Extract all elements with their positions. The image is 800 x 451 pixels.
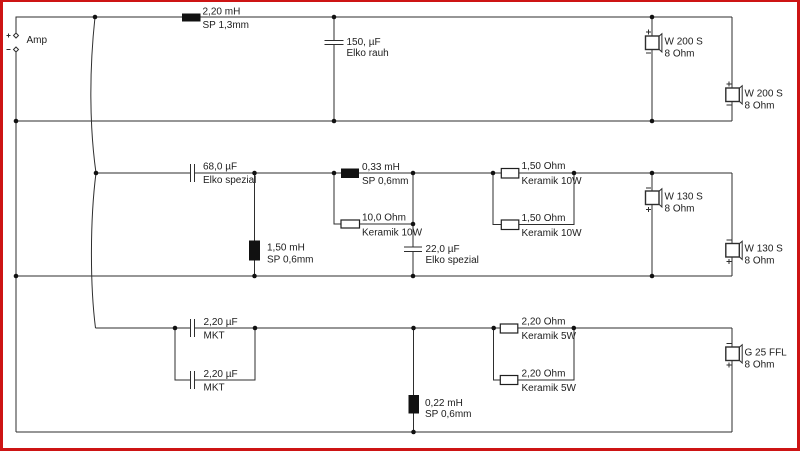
node rail1 / left bus: [14, 119, 19, 124]
node rail1 / C1: [332, 119, 337, 124]
wire woofer return rail (section 1 bottom): [16, 120, 732, 122]
svg-text:W 200 S: W 200 S: [665, 37, 704, 48]
svg-text:1,50 Ohm: 1,50 Ohm: [522, 213, 566, 224]
node rail2 / LS3 column: [650, 274, 655, 279]
speaker LS2 W 200 S 8 Ohm: [726, 82, 783, 112]
wire midrange rail: [96, 172, 190, 174]
inductor L3 1,50 mH SP 0,6mm (shunt): [249, 173, 314, 276]
speaker LS3 W 130 S 8 Ohm (inverted polarity): [646, 188, 704, 215]
resistor R2 1,50 Ohm Keramik 10W (top of pair): [501, 161, 582, 187]
capacitor C5 2,20 µF MKT (bottom of pair): [175, 328, 255, 394]
speaker LS5 G 25 FFL 8 Ohm (inverted polarity): [726, 344, 787, 371]
terminal - (amp negative): [7, 47, 19, 52]
wire right outer column section 2: [731, 173, 733, 244]
speaker LS1 W 200 S 8 Ohm: [646, 30, 704, 60]
svg-text:SP 0,6mm: SP 0,6mm: [362, 176, 409, 187]
svg-text:2,20 Ohm: 2,20 Ohm: [522, 369, 566, 380]
capacitor C4 2,20 µF MKT (top of pair): [191, 317, 238, 342]
node tweeter rail / C4-C5 right: [253, 326, 258, 331]
svg-text:Amp: Amp: [27, 35, 48, 46]
svg-text:W 130 S: W 130 S: [745, 244, 784, 255]
svg-text:G 25 FFL: G 25 FFL: [745, 347, 788, 358]
svg-text:W 130 S: W 130 S: [665, 192, 704, 203]
node top rail / curved bus: [93, 15, 98, 20]
capacitor C2 68,0 µF Elko spezial (series): [191, 162, 257, 187]
node mid rail / LS3 column: [650, 171, 655, 176]
svg-text:Elko spezial: Elko spezial: [203, 175, 256, 186]
wire midrange return rail (section 2 bottom): [16, 275, 732, 277]
svg-text:0,22 mH: 0,22 mH: [425, 398, 463, 409]
svg-text:68,0 µF: 68,0 µF: [203, 162, 237, 173]
svg-text:2,20 µF: 2,20 µF: [204, 369, 238, 380]
node rail1 / LS1 column: [650, 119, 655, 124]
svg-text:8 Ohm: 8 Ohm: [745, 256, 775, 267]
wire top rail from + terminal to right column: [16, 17, 732, 33]
speaker LS4 W 130 S 8 Ohm (inverted polarity): [726, 240, 783, 267]
wire right outer column section 3: [731, 328, 733, 347]
capacitor C1 150 µF Elko rauh (shunt): [325, 17, 389, 121]
svg-text:8 Ohm: 8 Ohm: [665, 204, 695, 215]
node top rail / C1: [332, 15, 337, 20]
svg-text:Elko rauh: Elko rauh: [347, 48, 389, 59]
svg-text:8 Ohm: 8 Ohm: [665, 49, 695, 60]
svg-text:2,20 µF: 2,20 µF: [204, 317, 238, 328]
resistor R3 1,50 Ohm Keramik 10W (bottom of pair): [493, 173, 582, 239]
svg-text:8 Ohm: 8 Ohm: [745, 359, 775, 370]
svg-text:1,50 Ohm: 1,50 Ohm: [522, 161, 566, 172]
resistor R1 10,0 Ohm Keramik 10W (parallel with L2): [334, 173, 423, 239]
wire right inner column section 2: [651, 173, 653, 191]
svg-text:Keramik 10W: Keramik 10W: [522, 176, 583, 187]
svg-text:1,50 mH: 1,50 mH: [267, 243, 305, 254]
node rail2 / C3: [411, 274, 416, 279]
node tweeter rail / C4-C5 left: [173, 326, 178, 331]
svg-text:Keramik 5W: Keramik 5W: [522, 383, 577, 394]
svg-text:10,0 Ohm: 10,0 Ohm: [362, 213, 406, 224]
node tweeter rail / R4-R5 right: [572, 326, 577, 331]
svg-text:8 Ohm: 8 Ohm: [745, 101, 775, 112]
terminal + (amp positive): [7, 33, 19, 38]
wire left bus from - terminal down to bottom rail: [15, 52, 17, 432]
wire right outer column section 1: [731, 17, 733, 88]
svg-text:2,20 Ohm: 2,20 Ohm: [522, 317, 566, 328]
node mid rail / curved bus: [94, 171, 99, 176]
resistor R5 2,20 Ohm Keramik 5W (bottom of pair): [494, 328, 577, 394]
inductor L1 2,20 mH SP 1,3mm: [182, 7, 249, 32]
node tweeter rail / R4-R5 left: [491, 326, 496, 331]
svg-text:Elko spezial: Elko spezial: [426, 255, 479, 266]
svg-text:2,20 mH: 2,20 mH: [203, 7, 241, 18]
inductor L4 0,22 mH SP 0,6mm (shunt): [409, 328, 472, 432]
node mid rail / L2-R1 left: [332, 171, 337, 176]
node mid rail / R2-R3 left: [491, 171, 496, 176]
wire tweeter rail: [96, 327, 191, 329]
inductor L2 0,33 mH SP 0,6mm: [341, 162, 409, 187]
svg-text:Keramik 5W: Keramik 5W: [522, 331, 577, 342]
svg-text:MKT: MKT: [204, 383, 225, 394]
node rail2 / L3: [252, 274, 257, 279]
node top rail / LS1 column: [650, 15, 655, 20]
capacitor C3 22,0 µF Elko spezial (shunt): [404, 173, 479, 276]
svg-text:SP 0,6mm: SP 0,6mm: [267, 255, 314, 266]
svg-text:MKT: MKT: [204, 331, 225, 342]
svg-text:0,33 mH: 0,33 mH: [362, 162, 400, 173]
svg-text:150, µF: 150, µF: [347, 37, 381, 48]
svg-text:W 200 S: W 200 S: [745, 89, 784, 100]
resistor R4 2,20 Ohm Keramik 5W (top of pair): [500, 317, 576, 343]
node mid rail / L2-R1 right: [411, 171, 416, 176]
svg-text:SP 0,6mm: SP 0,6mm: [425, 409, 472, 420]
svg-text:22,0 µF: 22,0 µF: [426, 244, 460, 255]
node R1 branch / C3 column: [411, 222, 416, 227]
node mid rail / R2-R3 right: [572, 171, 577, 176]
svg-text:SP 1,3mm: SP 1,3mm: [203, 20, 250, 31]
wire tweeter return rail (bottom): [16, 431, 732, 433]
node bottom rail / L4: [411, 430, 416, 435]
node tweeter rail / L4: [411, 326, 416, 331]
node mid rail / L3: [252, 171, 257, 176]
svg-text:Keramik 10W: Keramik 10W: [522, 228, 583, 239]
wire curved bus from top rail to mid and tweeter rails: [91, 17, 96, 328]
node rail2 / left bus: [14, 274, 19, 279]
wire right inner column section 1: [651, 17, 653, 36]
